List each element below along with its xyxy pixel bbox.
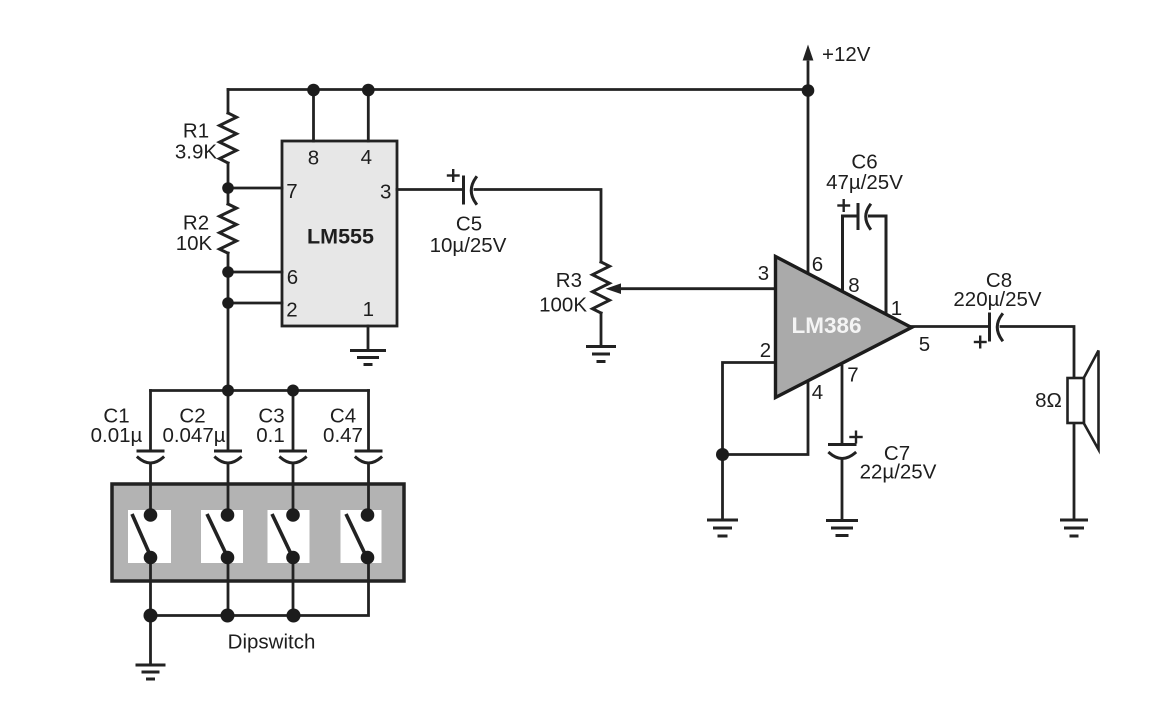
node R1/R2 pin7 junction: [222, 182, 234, 194]
node pin2 junction: [222, 297, 234, 309]
svg-text:10K: 10K: [176, 232, 213, 255]
svg-text:R3: R3: [556, 269, 582, 292]
svg-text:0.01µ: 0.01µ: [91, 424, 143, 447]
node +12V junction: [802, 84, 815, 97]
svg-text:7: 7: [286, 180, 297, 203]
wire bus to C4: [367, 391, 370, 452]
svg-text:8Ω: 8Ω: [1035, 389, 1062, 412]
capacitor C4: [356, 451, 381, 463]
wire C3 to switch3: [292, 464, 295, 516]
ground under speaker: [1060, 520, 1088, 536]
capacitor C1: [138, 451, 163, 463]
node lower bus 3: [287, 609, 301, 623]
resistor R1: [220, 113, 237, 163]
capacitor C5: [448, 170, 476, 203]
wire R2 down to capacitor bus: [227, 253, 230, 391]
svg-text:0.047µ: 0.047µ: [162, 424, 225, 447]
op-amp U2 LM386 body: [776, 257, 912, 398]
switch 3 contacts: [286, 508, 300, 564]
wire C7 to ground: [841, 460, 844, 521]
svg-text:Dipswitch: Dipswitch: [228, 631, 316, 654]
wire speaker to ground: [1073, 423, 1076, 520]
switch 1 lever: [132, 514, 151, 556]
speaker cone: [1084, 351, 1099, 450]
svg-text:8: 8: [848, 274, 859, 297]
svg-text:2: 2: [286, 299, 297, 322]
capacitor C6: [839, 200, 887, 313]
capacitor bus wire: [151, 389, 369, 392]
wire +12V supply column: [807, 62, 810, 273]
wire LM386 output pin5 to C8: [911, 325, 988, 328]
wire pin8 supply drop: [312, 90, 315, 142]
capacitor C7: [830, 432, 862, 459]
ground under C7: [826, 521, 858, 536]
svg-text:0.47: 0.47: [323, 424, 363, 447]
svg-text:C5: C5: [456, 213, 482, 236]
IC U1 LM555 body: [282, 141, 397, 326]
node pin8 supply junction: [307, 84, 320, 97]
dipswitch switch 3 window: [268, 510, 310, 563]
ground under LM386 pin2/4 node: [707, 520, 738, 536]
node LM386 pin2/4 junction: [716, 448, 729, 461]
svg-text:7: 7: [847, 364, 858, 387]
wire switch3 to lower bus: [292, 558, 295, 616]
wire bus to C2: [227, 391, 230, 452]
svg-text:220µ/25V: 220µ/25V: [953, 288, 1042, 311]
svg-text:6: 6: [287, 266, 298, 289]
wire bus to C1: [149, 391, 152, 452]
wire top supply rail: [228, 88, 808, 91]
ground under dipswitch: [136, 665, 166, 679]
capacitor C3: [281, 451, 306, 463]
svg-text:5: 5: [919, 333, 930, 356]
ground under LM555 pin1: [350, 351, 386, 365]
wire C2 to switch2: [227, 464, 230, 516]
wire LM386 pin7 to C7: [841, 366, 844, 445]
wire LM386 pin2: [723, 363, 776, 455]
svg-text:LM386: LM386: [791, 313, 861, 338]
dipswitch switch 1 window: [128, 510, 171, 563]
svg-text:6: 6: [812, 253, 823, 276]
switch 4 contacts: [361, 508, 375, 564]
capacitor C8: [975, 314, 1002, 347]
node pin4 supply junction: [362, 84, 375, 97]
wire R1 top segment: [227, 90, 230, 114]
wire switch1 to lower bus: [149, 558, 152, 616]
svg-text:0.1: 0.1: [256, 424, 285, 447]
svg-text:3: 3: [758, 262, 769, 285]
wire lower bus to ground: [149, 616, 152, 666]
wire switch4 to lower bus: [151, 558, 369, 616]
wire pin2: [228, 302, 282, 305]
wire switch2 to lower bus: [227, 558, 230, 616]
node lower bus 2: [221, 609, 235, 623]
dipswitch switch 4 window: [341, 510, 382, 563]
wire C4 to switch4: [367, 464, 370, 516]
svg-text:2: 2: [760, 339, 771, 362]
svg-text:8: 8: [308, 147, 319, 170]
switch 2 contacts: [221, 508, 235, 564]
node lower bus 1: [144, 609, 158, 623]
wire C1 to switch1: [149, 464, 152, 516]
svg-text:22µ/25V: 22µ/25V: [860, 461, 937, 484]
svg-text:R1: R1: [183, 120, 209, 143]
wire R3 to ground: [600, 313, 603, 346]
switch 2 lever: [207, 514, 227, 556]
resistor R2: [220, 204, 237, 253]
wire R3 wiper to LM386 pin3: [618, 287, 776, 290]
switch 4 lever: [346, 514, 366, 556]
wire pin6: [228, 271, 282, 274]
svg-text:3.9K: 3.9K: [175, 141, 217, 164]
+12V arrowhead: [803, 45, 814, 61]
wire pin2 node to ground: [721, 455, 724, 521]
node pin6 junction: [222, 266, 234, 278]
wire pin1 to ground: [367, 326, 370, 350]
svg-text:10µ/25V: 10µ/25V: [430, 234, 507, 257]
capacitor C2: [216, 451, 241, 463]
svg-text:1: 1: [891, 297, 902, 320]
dipswitch body: [112, 484, 404, 581]
node bus C3 junction: [287, 385, 299, 397]
wire C8 to speaker: [1001, 327, 1074, 379]
svg-text:4: 4: [361, 146, 372, 169]
wire pin2 node to pin4: [723, 381, 809, 455]
svg-text:4: 4: [812, 381, 823, 404]
svg-text:100K: 100K: [539, 294, 587, 317]
wire pin7: [228, 187, 282, 190]
wire R1 to node7: [227, 163, 230, 204]
potentiometer R3: [593, 262, 610, 313]
wire bus to C3: [292, 391, 295, 452]
switch 3 lever: [272, 514, 292, 556]
R3 wiper arrowhead: [606, 283, 622, 294]
svg-text:47µ/25V: 47µ/25V: [826, 171, 903, 194]
dipswitch switch 2 window: [201, 510, 243, 563]
wire C5 to R3 top: [475, 190, 601, 263]
wire pin3 to C5: [397, 188, 462, 191]
node bus C2 junction: [222, 385, 234, 397]
speaker driver box: [1068, 378, 1085, 423]
wire pin4 supply drop: [367, 90, 370, 142]
svg-text:LM555: LM555: [307, 225, 374, 249]
svg-text:+12V: +12V: [822, 43, 871, 66]
switch 1 contacts: [144, 508, 158, 564]
svg-text:1: 1: [363, 298, 374, 321]
ground under R3: [586, 347, 616, 362]
svg-text:3: 3: [380, 181, 391, 204]
